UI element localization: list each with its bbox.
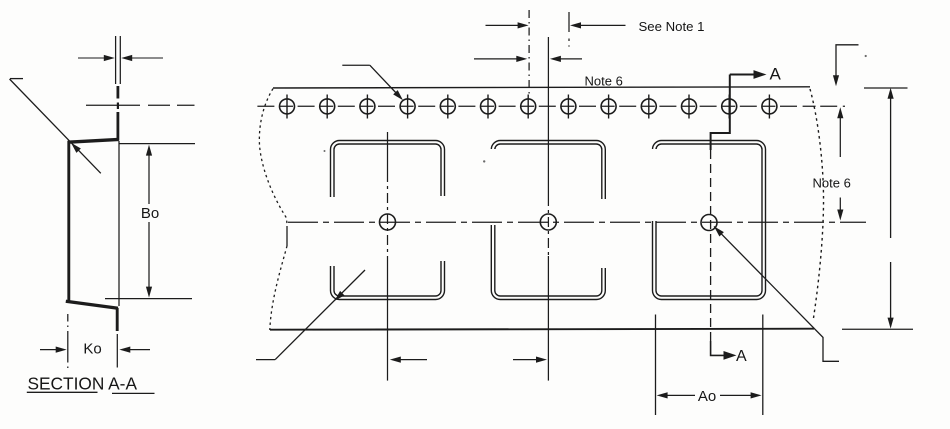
pocket row centerline <box>288 221 866 223</box>
svg-text:Ao: Ao <box>698 388 716 405</box>
svg-text:Note 6: Note 6 <box>585 73 623 88</box>
pocket P2 centerline / section reference <box>547 37 549 381</box>
fade patches on pocket walls <box>327 149 660 268</box>
specks <box>324 45 867 162</box>
section cut line A-A <box>711 75 730 342</box>
pocket left wall thick <box>67 141 70 301</box>
dimension tape width <box>888 88 894 329</box>
leader to pocket corner <box>256 270 365 360</box>
dimension Ko <box>40 347 150 353</box>
tape top edge <box>273 87 810 88</box>
pocket holes <box>380 214 718 231</box>
section arrow A bottom <box>711 341 737 360</box>
section tape edge thick line upper <box>117 86 120 141</box>
pocket pitch arrows <box>390 357 547 363</box>
sprocket holes <box>280 95 777 119</box>
dimension Ao <box>657 392 762 398</box>
pocket P2 <box>491 141 605 300</box>
svg-text:Ko: Ko <box>83 341 101 358</box>
edge reference bracket <box>833 45 859 87</box>
svg-text:A: A <box>736 348 747 365</box>
dimension Bo <box>146 145 152 298</box>
svg-text:Note 6: Note 6 <box>813 176 851 191</box>
tape thickness double line <box>116 36 121 84</box>
hole 7 extension line <box>528 10 530 96</box>
pocket top flange thick <box>68 139 119 142</box>
right torn edge <box>810 89 824 318</box>
pocket P1 centerline <box>387 132 389 381</box>
dimension hole to pocket center <box>474 56 582 62</box>
leader to sprocket hole <box>342 65 405 102</box>
pocket P3 <box>653 141 766 300</box>
hole 8 extension line <box>568 12 570 41</box>
dimension see note 1 <box>486 22 626 28</box>
sprocket hole row centerline <box>257 105 845 107</box>
tape width extension lines <box>842 88 913 329</box>
left torn edge <box>259 89 287 330</box>
tape bottom edge <box>270 329 814 330</box>
tape thickness dimension arrows <box>78 55 163 61</box>
svg-text:Bo: Bo <box>141 205 159 222</box>
tape edge thick line lower <box>116 308 119 331</box>
dimension note 6 right <box>837 107 843 220</box>
label SECTION A-A <box>27 374 155 394</box>
pocket inner wall thin <box>118 141 120 306</box>
Bo extension lines <box>105 144 195 299</box>
leader to pocket hole with break jog <box>712 224 839 361</box>
pocket P1 <box>331 141 445 300</box>
svg-text:A: A <box>770 65 782 84</box>
svg-text:SECTION A-A: SECTION A-A <box>28 374 138 394</box>
section arrow A top <box>730 70 767 79</box>
section sprocket centerline <box>86 103 195 110</box>
pocket bottom flange thick <box>66 301 118 308</box>
Ao extension lines <box>656 315 763 416</box>
svg-text:See Note 1: See Note 1 <box>639 19 705 34</box>
Ko extension lines <box>68 314 118 369</box>
leader to flange corner <box>10 79 101 174</box>
